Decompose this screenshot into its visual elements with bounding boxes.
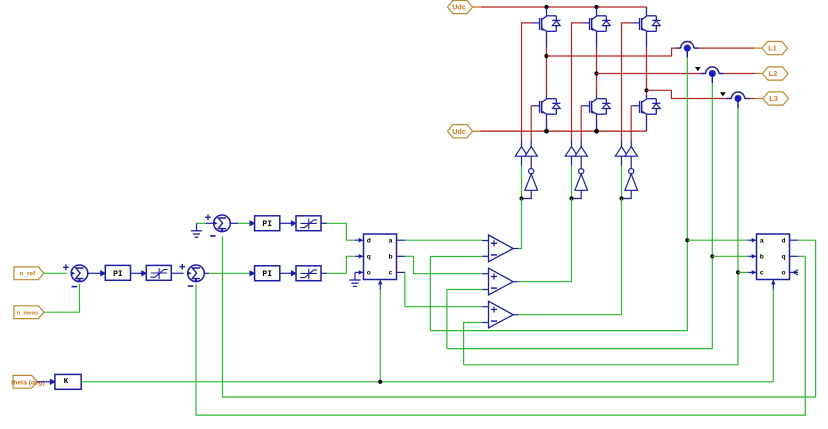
wire theta tag to gain K (37, 381, 50, 383)
wire leg C midpoint vertical (646, 31, 648, 47)
wire ammeter A3 to L3 tag (750, 98, 756, 100)
svg-text:a: a (760, 238, 764, 246)
ground at summer S3 plus input (206, 222, 214, 224)
arrow current direction marker A3 (721, 93, 725, 96)
svg-text:Udc: Udc (452, 3, 466, 12)
node driver input junction leg C (619, 196, 623, 200)
limiter (q loop) (296, 266, 321, 281)
wire leg B midpoint vertical (596, 31, 598, 47)
PI controller id (255, 216, 280, 231)
svg-text:q: q (367, 254, 371, 262)
wire driver A high input (521, 156, 523, 166)
svg-text:PI: PI (113, 270, 123, 279)
wire summer S2 to PI q (204, 272, 209, 274)
wire iL1 measurement (green) (430, 58, 687, 331)
arrow unconnected o output marker (793, 270, 798, 275)
wire driver output leads leg A (521, 140, 523, 147)
transistor QBL (low-side IGBT leg B) (583, 99, 611, 115)
wire gate leg C low-side (red) (631, 106, 632, 140)
wire ammeter A2 to L2 tag (724, 73, 755, 75)
node bottom rail / leg B (594, 129, 599, 134)
wire iL3 measurement (green) (464, 108, 738, 365)
svg-text:b: b (389, 254, 393, 262)
tag n_meas (14, 306, 44, 319)
gain block K (deg to rad) (55, 374, 81, 389)
ground symbol (d reference) (191, 231, 202, 237)
svg-text:o: o (782, 270, 786, 278)
wire driver B low input from inverter (580, 156, 582, 168)
wire leg B midpoint to ammeter A2 (597, 73, 701, 75)
PI controller iq (255, 266, 280, 281)
wire driver C low input from inverter (630, 156, 632, 168)
wire driver C high input (621, 156, 623, 166)
node iL1 tap to abc-dq0 box (685, 238, 689, 242)
wire abc-dq0 q output feedback to summer S2 (196, 256, 805, 415)
tag Udc (bottom DC bus) (448, 125, 473, 138)
gate driver UC1 (high) (615, 147, 627, 157)
wire leg A midpoint to ammeter A1 (547, 48, 676, 56)
wire inverter A input (522, 190, 532, 198)
wire drain lead leg A high-side (546, 7, 548, 16)
wire PI speed to limiter (131, 272, 143, 274)
wire n_ref to summer S1 (44, 272, 67, 274)
svg-text:n_ref: n_ref (20, 271, 36, 278)
arrow current direction marker A2 (696, 68, 700, 71)
transistor QCH (high-side IGBT leg C) (633, 16, 661, 31)
wire orange lead from Udc bottom tag (473, 130, 481, 132)
wire gate leg C high-side (red) (622, 23, 633, 140)
wire drain lead leg B high-side (596, 7, 598, 16)
wire dq0-abc pin o to ground (354, 272, 356, 280)
limiter (speed loop) (146, 265, 171, 280)
wire dq0-abc b to CMP2 plus (405, 256, 482, 273)
wire theta to abc-dq0 bottom pin (772, 290, 774, 382)
svg-text:K: K (64, 378, 69, 386)
ammeter A3 (phase L3 current) (727, 92, 750, 108)
svg-text:L1: L1 (768, 44, 777, 53)
wire gate leg B low-side (red) (581, 106, 582, 140)
wire inverter C input (622, 190, 632, 198)
svg-text:n_meas: n_meas (17, 311, 39, 317)
wire iL3 to right box pin c (738, 271, 748, 273)
wire iL1 to right box pin a (687, 239, 748, 241)
wire source lead leg A low-side to DC- rail (546, 114, 548, 131)
wire gate leg A low-side (red) (531, 106, 532, 140)
node theta branch to dq0-abc (378, 380, 382, 384)
wire iL2 measurement (green) (447, 83, 712, 349)
node leg C midpoint (644, 88, 648, 92)
svg-text:a: a (389, 238, 393, 246)
wire gate leg A high-side (red) (522, 23, 533, 140)
wire leg A midpoint vertical (546, 31, 548, 47)
wire top DC rail (+) (481, 6, 647, 8)
limiter (d loop) (296, 216, 321, 231)
inverter (NOT) UC3 (625, 169, 638, 191)
wire n_meas to summer S1 minus (44, 284, 80, 312)
wire iL2 to CMP2 minus (447, 290, 482, 349)
summer S3 (d current error) (205, 215, 230, 236)
svg-text:c: c (760, 270, 764, 278)
gate driver UB2 (low) (575, 147, 587, 157)
transistor QCL (low-side IGBT leg C) (633, 99, 661, 115)
tag n_ref (14, 267, 44, 280)
svg-text:c: c (389, 270, 393, 278)
node leg B midpoint (594, 71, 598, 75)
gate driver UA1 (high) (515, 147, 527, 157)
svg-text:d: d (782, 238, 786, 246)
wire ammeter A1 to L1 tag (699, 47, 754, 49)
wire abc-dq0 d output feedback to summer S3 (223, 236, 816, 397)
inverter (NOT) UB3 (575, 169, 588, 191)
wire theta distribution line (81, 381, 773, 383)
tag Udc (top DC bus) (448, 0, 473, 13)
wire inverter B input (572, 190, 582, 198)
transistor QBH (high-side IGBT leg B) (583, 16, 611, 31)
wire orange lead from Udc top tag (473, 6, 482, 8)
wire leg C midpoint to ammeter A3 (647, 90, 727, 98)
wire source lead leg C low-side to DC- rail (646, 114, 648, 131)
wire driver A low input from inverter (530, 156, 532, 168)
comparator CMP1 (phase a) (482, 235, 519, 262)
svg-text:o: o (367, 270, 371, 278)
svg-text:PI: PI (262, 220, 272, 229)
wire driver output leads leg C (621, 140, 623, 147)
PI controller speed (105, 265, 130, 280)
node iL2 tap to abc-dq0 box (710, 254, 714, 258)
tag theta (deg) (13, 375, 37, 388)
wire PI q to limiter q (280, 272, 292, 274)
comparator CMP3 (phase c) (482, 301, 519, 328)
transistor QAL (low-side IGBT leg A) (533, 99, 561, 115)
wire driver output leads leg B (571, 140, 573, 147)
svg-text:q: q (782, 254, 786, 262)
ground symbol (o input) (349, 280, 360, 286)
svg-text:theta (deg): theta (deg) (11, 379, 45, 386)
summer S2 (q current error) (180, 264, 205, 286)
wire dq0-abc a to CMP1 plus (405, 239, 482, 241)
inverter (NOT) UA3 (525, 169, 538, 191)
wire limiter d to dq0-abc pin d (321, 222, 327, 224)
tag L1 (762, 42, 788, 55)
comparator CMP2 (phase b) (482, 268, 519, 295)
node iL3 tap to abc-dq0 box (736, 270, 740, 274)
wire limiter to summer S2 (171, 272, 183, 274)
node top rail / leg B (594, 5, 598, 9)
wire summer S1 to PI speed (88, 272, 101, 274)
wire iL3 to CMP3 minus (464, 323, 482, 365)
wire PI d to limiter d (280, 222, 292, 224)
transform block abc-dq0 (U5) (748, 234, 798, 290)
wire theta to dq0-abc bottom pin (379, 290, 381, 382)
transistor QAH (high-side IGBT leg A) (533, 16, 561, 31)
ammeter A2 (phase L2 current) (701, 67, 724, 83)
svg-text:Udc: Udc (452, 127, 466, 136)
gate driver UC2 (low) (625, 147, 637, 157)
svg-text:b: b (760, 254, 764, 262)
node top rail / leg A (544, 5, 548, 9)
wire summer S3 to PI d (230, 222, 238, 224)
svg-text:L3: L3 (769, 94, 778, 103)
svg-text:d: d (367, 238, 371, 246)
wire gate leg B high-side (red) (572, 23, 583, 140)
wire limiter q to dq0-abc pin q (321, 272, 327, 274)
node bottom rail / leg A (544, 129, 549, 134)
ammeter A1 (phase L1 current) (676, 41, 699, 57)
svg-text:L2: L2 (769, 69, 778, 78)
tag L3 (763, 92, 789, 105)
wire CMP2 output to driver B (519, 199, 572, 282)
wire source lead leg B low-side to DC- rail (596, 114, 598, 131)
wire bottom DC rail (-) (481, 130, 647, 132)
gate driver UA2 (low) (525, 147, 537, 157)
wire driver B high input (571, 156, 573, 166)
tag L2 (763, 67, 789, 80)
wire iL2 to right box pin b (712, 255, 748, 257)
node leg A midpoint (544, 54, 548, 58)
node driver input junction leg B (569, 196, 573, 200)
gate driver UB1 (high) (565, 147, 577, 157)
transform block dq0-abc (U4) (355, 234, 405, 290)
wire iL1 to CMP1 minus (430, 257, 482, 331)
svg-text:PI: PI (262, 270, 272, 279)
wire CMP1 output to driver A (519, 199, 522, 249)
wire dq0-abc c to CMP3 plus (405, 272, 482, 306)
wire drain lead leg C high-side (646, 7, 648, 16)
summer S1 (speed error) (63, 265, 88, 287)
wire CMP3 output to driver C (519, 199, 622, 315)
node driver input junction leg A (519, 196, 523, 200)
